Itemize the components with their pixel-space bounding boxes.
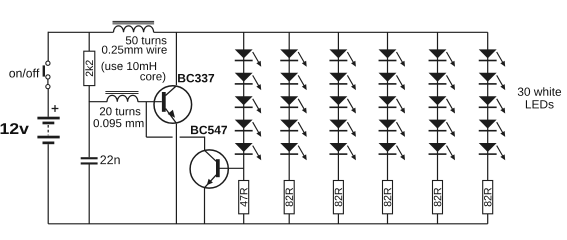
LED D16 — [379, 49, 405, 66]
switch on/off — [43, 61, 50, 89]
LED D26 — [479, 49, 505, 66]
wire BC547 base to LED column 1 — [220, 167, 244, 169]
LED D29 — [479, 120, 505, 137]
wire BC337 emitter to bottom rail — [175, 124, 177, 224]
resistor 47R column 1 — [239, 181, 249, 214]
LED D4 — [235, 120, 261, 137]
wire tap on base wire down — [145, 102, 147, 137]
wire top rail to LED column 2 — [288, 32, 290, 180]
wire R 2k2 to node A — [88, 86, 90, 102]
label 20 turns — [100, 107, 140, 115]
LED D17 — [379, 73, 405, 90]
battery 12v — [37, 105, 59, 144]
capacitor 22n — [81, 157, 98, 164]
resistor 82R column 3 — [333, 181, 343, 214]
label (use 10mH — [102, 62, 157, 73]
LED D7 — [280, 73, 306, 90]
wire capacitor 22n to bottom rail — [88, 165, 90, 224]
label 0.095 mm — [94, 119, 144, 127]
label 50 turns — [126, 36, 167, 44]
wire top rail to LED column 5 — [437, 32, 439, 180]
wire BC337 collector to top rail — [175, 32, 177, 85]
transistor BC337 — [154, 86, 192, 124]
LED D12 — [329, 73, 355, 90]
wire top rail to LED column 6 — [487, 32, 489, 180]
wire bottom rail (0v) — [48, 223, 488, 225]
LED D30 — [479, 143, 505, 160]
label 0.25mm wire — [102, 45, 167, 53]
LED D24 — [429, 120, 455, 137]
label BC547 — [191, 126, 227, 135]
label 12v — [1, 123, 29, 134]
label core) — [140, 72, 165, 83]
wire resistor column 5 to bottom rail — [437, 214, 439, 224]
label on/off — [9, 69, 39, 78]
wire resistor column 2 to bottom rail — [288, 214, 290, 224]
LED D18 — [379, 96, 405, 113]
wire node A to capacitor 22n — [88, 101, 90, 157]
LED D14 — [329, 120, 355, 137]
wire top rail to R 2k2 — [88, 32, 90, 51]
wire resistor column 4 to bottom rail — [387, 214, 389, 224]
resistor 2k2 — [84, 51, 95, 85]
wire switch to battery — [47, 89, 49, 117]
resistor 82R column 2 — [284, 181, 294, 214]
wire node A to inductor L2 — [89, 101, 107, 103]
LED D11 — [329, 49, 355, 66]
transistor BC547 — [190, 150, 228, 188]
wire from top rail to switch — [47, 32, 49, 62]
inductor L1 50 turns — [113, 21, 155, 32]
resistor 82R column 4 — [383, 181, 393, 214]
wire top rail to LED column 3 — [337, 32, 339, 180]
inductor L2 20 turns — [105, 92, 138, 102]
LED D1 — [235, 49, 261, 66]
wire BC547 emitter to bottom rail — [204, 188, 206, 224]
LED D9 — [280, 120, 306, 137]
LED D3 — [235, 96, 261, 113]
label 22n — [100, 155, 119, 164]
LED D5 — [235, 143, 261, 160]
wire top rail to LED column 1 — [243, 32, 245, 180]
wire battery to bottom rail — [47, 144, 49, 224]
resistor 82R column 5 — [433, 181, 443, 214]
wire crossover right segment — [180, 136, 205, 138]
LED D19 — [379, 120, 405, 137]
label 30 white LEDs — [518, 87, 561, 108]
LED D15 — [329, 143, 355, 160]
wire top rail (positive supply) — [48, 31, 488, 33]
wire down to BC547 collector — [204, 137, 206, 151]
wire crossover left segment — [146, 136, 172, 138]
LED D25 — [429, 143, 455, 160]
LED D10 — [280, 143, 306, 160]
LED D28 — [479, 96, 505, 113]
wire top rail to LED column 4 — [387, 32, 389, 180]
LED D22 — [429, 73, 455, 90]
LED D21 — [429, 49, 455, 66]
wire resistor column 1 to bottom rail — [243, 214, 245, 224]
LED D6 — [280, 49, 306, 66]
LED D20 — [379, 143, 405, 160]
LED D2 — [235, 73, 261, 90]
wire inductor L2 to BC337 base — [138, 101, 162, 103]
wire resistor column 3 to bottom rail — [337, 214, 339, 224]
wire resistor column 6 to bottom rail — [487, 214, 489, 224]
LED D27 — [479, 73, 505, 90]
LED D13 — [329, 96, 355, 113]
LED D23 — [429, 96, 455, 113]
resistor 82R column 6 — [483, 181, 493, 214]
LED D8 — [280, 96, 306, 113]
label BC337 — [178, 74, 214, 83]
